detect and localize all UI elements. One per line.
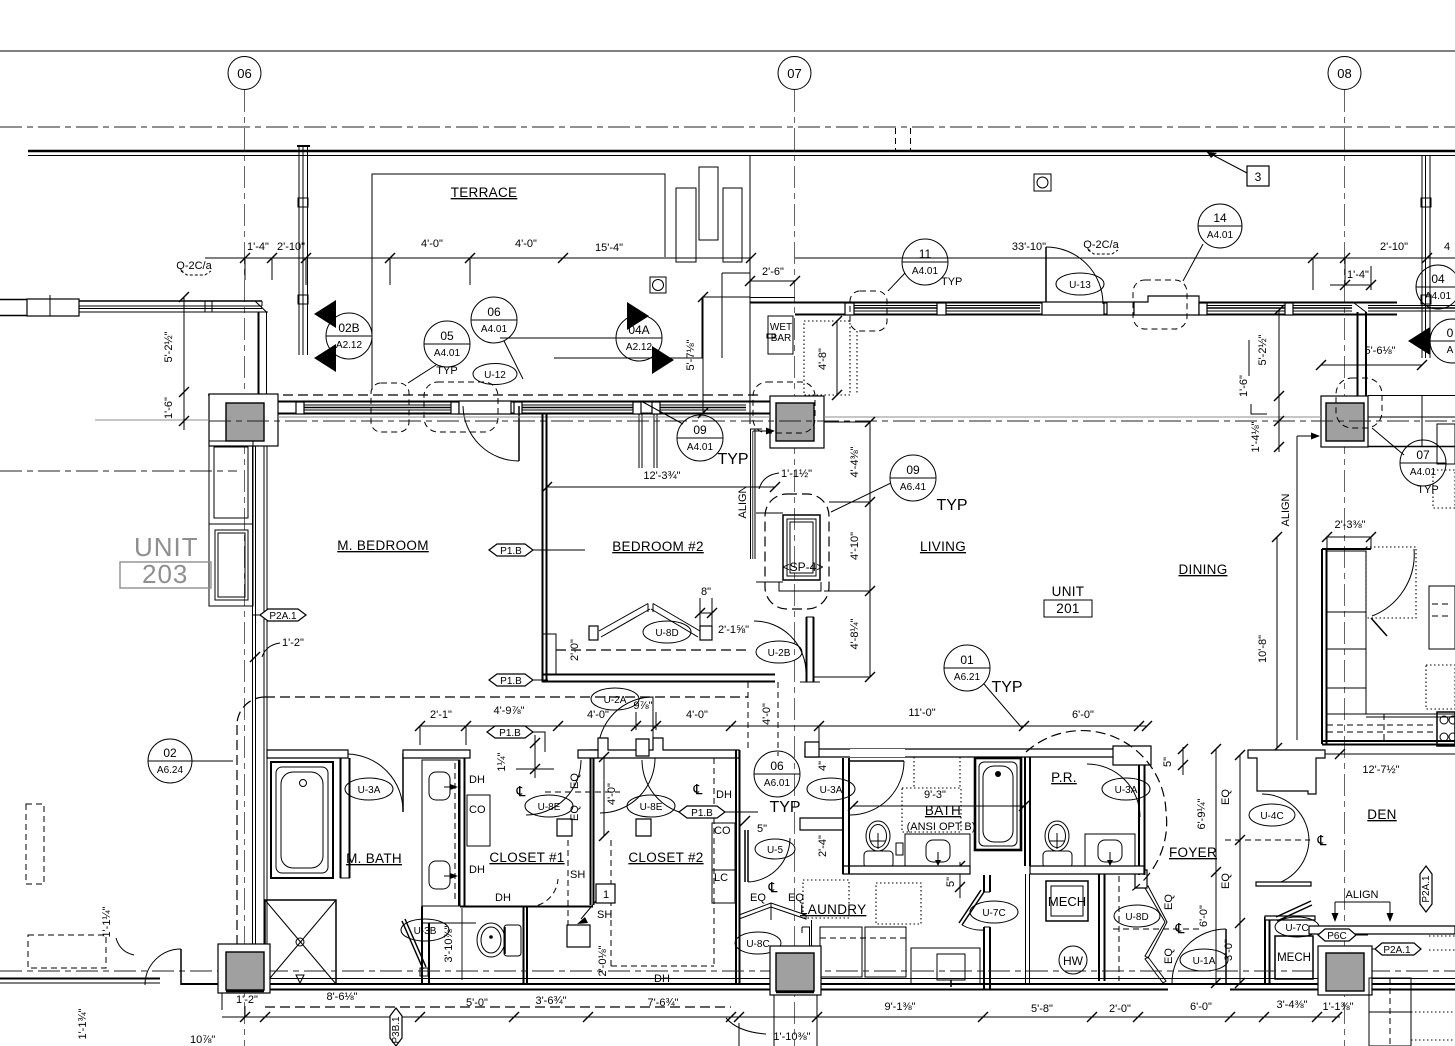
ALIGN bracket (den) <box>1332 889 1394 922</box>
svg-text:4'-8¼": 4'-8¼" <box>849 618 861 649</box>
bottom-left rotated texts (partially cut) <box>77 1008 218 1046</box>
Q-2C/a label right <box>1083 239 1119 254</box>
svg-text:6'-9¼": 6'-9¼" <box>1196 798 1208 829</box>
svg-text:5'-6⅛": 5'-6⅛" <box>1364 345 1395 357</box>
svg-text:U-8C: U-8C <box>746 939 769 950</box>
left unit bottom wall <box>0 949 222 1010</box>
svg-text:06: 06 <box>237 66 251 81</box>
dashed pill around col08 <box>1336 378 1382 428</box>
svg-text:U-1A: U-1A <box>1193 956 1216 967</box>
foyer/den south wall <box>1309 926 1455 934</box>
bedroom2 closet bifold U-8D <box>589 604 712 644</box>
svg-text:04: 04 <box>1431 272 1445 286</box>
closet left jog <box>542 634 556 674</box>
shower <box>265 900 336 984</box>
P1.B tag 2 <box>489 674 548 687</box>
svg-text:P2A.1: P2A.1 <box>269 611 297 622</box>
svg-text:02B: 02B <box>338 321 359 335</box>
callout 11/A4.01 TYP <box>888 239 962 291</box>
svg-text:CO: CO <box>469 804 486 816</box>
dashed pill around window joint 2 <box>424 382 498 432</box>
svg-text:9⅞": 9⅞" <box>633 700 652 712</box>
svg-text:33'-10": 33'-10" <box>1012 241 1046 253</box>
svg-text:U-5: U-5 <box>767 845 784 856</box>
big dashed arc around PR <box>1026 731 1167 892</box>
svg-text:DH: DH <box>495 892 511 904</box>
svg-text:P1.B: P1.B <box>500 676 522 687</box>
svg-text:1: 1 <box>603 889 609 901</box>
callout 14/A4.01 <box>1183 204 1242 281</box>
range <box>1437 712 1455 746</box>
svg-text:07: 07 <box>1416 448 1430 462</box>
svg-text:P.R.: P.R. <box>1051 770 1077 785</box>
mullion verticals below bedroom2 window <box>639 414 657 468</box>
svg-text:MECH: MECH <box>1048 894 1086 909</box>
bottom column 08 <box>1318 946 1372 995</box>
right edge counter bits <box>1437 424 1455 464</box>
svg-text:LAUNDRY: LAUNDRY <box>800 902 866 917</box>
laundry right wall stub <box>802 920 812 952</box>
svg-text:M. BATH: M. BATH <box>346 851 402 866</box>
corner turning down <box>258 312 260 394</box>
1 1/4" small dim <box>496 735 554 781</box>
8" dim <box>695 586 717 626</box>
linen U-5 door <box>740 816 795 882</box>
svg-text:1'-10⅜": 1'-10⅜" <box>773 1031 810 1043</box>
glazing to corner <box>1204 305 1352 307</box>
12'-3 3/4" dim <box>542 470 780 492</box>
svg-text:U-3A: U-3A <box>820 785 843 796</box>
P1.B tag 4 + leader <box>679 806 758 819</box>
svg-text:U-7C: U-7C <box>1285 923 1308 934</box>
closet1 dashes + SH labels <box>528 840 615 966</box>
top dimension row (left) <box>205 238 756 285</box>
UNIT 203 label (grey) <box>120 532 211 589</box>
svg-text:5'-2½": 5'-2½" <box>1257 334 1269 365</box>
centerline left wing y471 <box>0 470 237 472</box>
svg-text:U-12: U-12 <box>484 370 506 381</box>
M.bath north wall + door U-3A <box>267 750 466 812</box>
svg-text:4'-0": 4'-0" <box>515 238 537 250</box>
svg-text:(ANSI OPT B): (ANSI OPT B) <box>907 821 976 833</box>
PR door U-3A right <box>1087 764 1150 819</box>
long dashed line above window wall <box>208 394 762 396</box>
terrace louver rect 1 <box>676 188 696 262</box>
svg-text:1'-1¼": 1'-1¼" <box>101 906 113 937</box>
svg-text:TYP: TYP <box>991 679 1022 696</box>
main unit bottom wall (south) <box>181 979 1455 990</box>
laundry dotted upper cabinets <box>803 880 921 924</box>
6'-9 1/4" + EQ dims <box>1196 744 1327 988</box>
svg-text:6'-0": 6'-0" <box>1190 1001 1212 1013</box>
bathtub <box>271 762 333 878</box>
svg-text:09: 09 <box>693 423 707 437</box>
terrace mullion column x300 <box>297 146 310 355</box>
svg-text:EQ: EQ <box>1163 948 1175 964</box>
grid bubble 07 <box>778 57 811 90</box>
svg-text:4'-0": 4'-0" <box>587 709 609 721</box>
svg-text:DEN: DEN <box>1367 807 1396 822</box>
double sink vanity <box>422 760 460 906</box>
wall between tub and vanity <box>340 758 350 878</box>
svg-text:HW: HW <box>1063 954 1084 968</box>
svg-text:1'-2": 1'-2" <box>282 637 304 649</box>
svg-text:4'-0": 4'-0" <box>421 238 443 250</box>
CL + DH closet2 top <box>693 781 732 801</box>
wall stubs below bedroom2 (closet top) <box>590 738 739 758</box>
wall segments M.bedroom south <box>403 750 470 758</box>
svg-text:MECH: MECH <box>1277 952 1311 964</box>
svg-text:CLOSET #1: CLOSET #1 <box>489 850 564 865</box>
svg-text:5": 5" <box>1162 757 1174 767</box>
BATH labels <box>848 757 1029 833</box>
svg-text:06: 06 <box>770 759 784 773</box>
dashed pill around SP-4 <box>765 494 829 609</box>
svg-text:12'-7½": 12'-7½" <box>1362 764 1399 776</box>
svg-text:BEDROOM #2: BEDROOM #2 <box>612 539 704 554</box>
svg-text:203: 203 <box>142 559 188 589</box>
2'-0 1/8" rotated dim <box>597 930 616 993</box>
closet2 interior dashed <box>611 758 714 985</box>
vertical dim chain right of shaft <box>814 417 875 682</box>
1'-1 1/4" note <box>101 906 134 955</box>
SP-4 shaft <box>756 513 823 591</box>
svg-text:UNIT: UNIT <box>1052 584 1085 599</box>
svg-text:10'-8": 10'-8" <box>1257 635 1269 663</box>
svg-text:02: 02 <box>163 746 177 760</box>
section marker 02B/A2.12 <box>314 300 372 372</box>
svg-text:3'-10⅞": 3'-10⅞" <box>443 925 455 962</box>
WET BAR <box>767 316 793 354</box>
svg-text:1'-4": 1'-4" <box>247 241 269 253</box>
terrace louver rect 2 <box>699 167 718 240</box>
grid bubble 08 <box>1328 57 1361 90</box>
svg-text:5": 5" <box>945 877 957 887</box>
svg-text:11: 11 <box>919 247 932 261</box>
svg-text:A6.41: A6.41 <box>900 482 927 493</box>
ceiling box with circle (right) <box>1034 174 1051 191</box>
glazing segment 3 <box>658 404 746 406</box>
window band continues past corner to right edge <box>1368 305 1455 307</box>
U-12 terrace door opening <box>459 401 511 414</box>
svg-text:ALIGN: ALIGN <box>1280 493 1292 526</box>
svg-text:U-2B: U-2B <box>768 648 791 659</box>
wall piece + notched piece <box>1107 302 1134 315</box>
svg-text:TYP: TYP <box>769 799 800 816</box>
P2A.1 rotated tag <box>1420 866 1432 912</box>
callout 06/A4.01 <box>471 297 523 379</box>
svg-text:4'-8": 4'-8" <box>817 348 829 370</box>
wall bath/PR <box>1025 757 1030 984</box>
svg-text:U-7C: U-7C <box>982 908 1005 919</box>
1'-1 1/2" note <box>755 468 812 495</box>
dashed pill wall joint left of 08 <box>1133 280 1187 329</box>
svg-text:2'-10": 2'-10" <box>1380 241 1408 253</box>
svg-text:U-8E: U-8E <box>640 802 663 813</box>
5'-6 1/8" dim right of col08 <box>1321 364 1422 366</box>
P3B.1 rotated tag <box>390 1008 402 1046</box>
glazing segments <box>850 305 941 307</box>
svg-text:9'-1⅜": 9'-1⅜" <box>884 1001 915 1013</box>
svg-text:4'-4⅜": 4'-4⅜" <box>849 446 861 477</box>
bath door U-3A left <box>807 761 904 815</box>
terrace SE stepped boundary <box>749 155 751 424</box>
svg-text:1'-2": 1'-2" <box>236 994 258 1006</box>
svg-text:3'-4⅜": 3'-4⅜" <box>1276 999 1307 1011</box>
svg-text:0: 0 <box>1447 326 1454 340</box>
svg-text:3: 3 <box>1255 170 1262 184</box>
svg-text:15'-4": 15'-4" <box>595 242 623 254</box>
bottom column 06 <box>218 944 270 993</box>
svg-text:U-3A: U-3A <box>1115 785 1138 796</box>
bottom column 07 <box>770 946 821 1046</box>
svg-text:U-3A: U-3A <box>358 785 381 796</box>
closet dashed + 2'-0" <box>556 607 748 674</box>
svg-text:℄: ℄ <box>768 879 778 895</box>
svg-text:2'-1": 2'-1" <box>430 709 452 721</box>
svg-text:1'-1¾": 1'-1¾" <box>77 1008 89 1039</box>
Q-2C/a label left <box>176 260 212 275</box>
bedroom2 south wall <box>542 674 775 682</box>
svg-text:4'-0": 4'-0" <box>686 709 708 721</box>
door U-12 leaf+swing <box>463 406 519 461</box>
svg-text:3'-0": 3'-0" <box>1223 939 1235 961</box>
PR right wall <box>1139 765 1145 875</box>
bath tub <box>975 758 1021 850</box>
mech right room <box>1265 901 1319 984</box>
hall dashed lines + 4'-0" <box>748 682 778 756</box>
wall band right of col08 <box>1368 396 1455 447</box>
callout 09/A4.01 TYP (window wall) <box>641 401 749 468</box>
terrace louver rect 3 <box>723 188 742 262</box>
svg-text:2'-0": 2'-0" <box>1109 1003 1131 1015</box>
P1.B tag 3 <box>487 726 545 752</box>
closet1 EQ/EQ + CL + 4'-0" <box>516 752 621 841</box>
svg-text:09: 09 <box>906 463 920 477</box>
5" tick near PR <box>1162 744 1188 775</box>
svg-text:P6C: P6C <box>1327 931 1346 942</box>
ALIGN leader at col07 <box>737 428 775 560</box>
svg-text:5'-2½": 5'-2½" <box>163 331 175 362</box>
svg-text:2'-0": 2'-0" <box>569 639 581 661</box>
callout 07/A4.01 TYP <box>1372 428 1446 496</box>
dashed line below bottom dim texts <box>265 1006 731 1008</box>
grey floor edge line <box>278 416 770 418</box>
bifold U-8C <box>735 903 806 954</box>
U-13 door opening <box>1042 302 1104 315</box>
svg-text:1'-6": 1'-6" <box>163 397 175 419</box>
svg-text:<SP-4>: <SP-4> <box>783 560 824 574</box>
svg-text:P2A.1: P2A.1 <box>1383 945 1411 956</box>
svg-text:ALIGN: ALIGN <box>737 485 749 518</box>
U-12 oval tag <box>473 364 517 385</box>
svg-text:WET: WET <box>770 322 792 333</box>
glazing segment bedroom2 window <box>520 404 637 406</box>
callout 06/A6.01 TYP <box>754 751 801 816</box>
door U-13 leaf+swing <box>1046 247 1104 304</box>
glazing segment M.Bedroom window <box>302 404 455 406</box>
5'-2 1/2" + 1'-6" left vertical dims <box>163 292 189 430</box>
svg-text:FOYER: FOYER <box>1169 845 1217 860</box>
svg-text:2'-1⅝": 2'-1⅝" <box>718 624 749 636</box>
svg-text:4'-0": 4'-0" <box>606 783 618 805</box>
closet2 right wall <box>736 750 740 985</box>
property dash-dot line <box>0 126 1455 128</box>
svg-text:DINING: DINING <box>1178 562 1227 577</box>
building edge double line <box>28 150 1455 153</box>
NE corner down <box>1357 312 1359 396</box>
grid bubble 06 <box>228 57 261 90</box>
svg-text:1'-4⅛": 1'-4⅛" <box>1250 421 1262 452</box>
ALIGN leader col08 <box>1280 433 1320 741</box>
laundry EQ EQ CL <box>750 879 804 904</box>
10'-8" dining dim <box>1257 532 1282 753</box>
svg-text:Q-2C/a: Q-2C/a <box>1083 239 1119 251</box>
svg-text:8": 8" <box>701 586 711 598</box>
PR toilet <box>1043 821 1072 868</box>
svg-text:U-8D: U-8D <box>1125 912 1148 923</box>
svg-text:A4.01: A4.01 <box>481 324 508 335</box>
svg-text:2'-0⅛": 2'-0⅛" <box>597 945 609 976</box>
svg-text:08: 08 <box>1337 66 1351 81</box>
svg-text:U-4C: U-4C <box>1260 811 1283 822</box>
svg-text:EQ: EQ <box>1163 894 1175 910</box>
P2A.1 tag horizontal <box>1368 943 1421 956</box>
terrace divider next unit <box>1421 156 1431 358</box>
svg-text:6'-0": 6'-0" <box>1072 709 1094 721</box>
svg-text:05: 05 <box>440 329 454 343</box>
top border line <box>0 50 1455 52</box>
4'-8" dotted cabinet <box>804 316 857 400</box>
upper-left unit wall band y299-316 <box>0 295 268 394</box>
grid line 06 (vertical dash-dot) <box>244 90 246 1046</box>
svg-text:01: 01 <box>960 653 974 667</box>
svg-text:A: A <box>1447 345 1454 356</box>
svg-text:2'-4": 2'-4" <box>817 835 829 857</box>
hall wall piece y818-830 <box>800 818 843 830</box>
svg-text:2'-10": 2'-10" <box>277 241 305 253</box>
door U-3B diagonal <box>401 919 449 976</box>
bath south wall <box>843 758 1144 874</box>
P6C tag <box>1318 929 1368 942</box>
bath vanity <box>896 834 970 866</box>
svg-text:EQ: EQ <box>788 892 804 904</box>
soffit dashed line y697 <box>265 696 748 698</box>
svg-text:EQ: EQ <box>569 773 581 789</box>
svg-text:14: 14 <box>1213 211 1227 225</box>
svg-text:LC: LC <box>714 872 728 884</box>
svg-text:CO: CO <box>714 825 731 837</box>
svg-text:DH: DH <box>716 789 732 801</box>
svg-text:2'-6": 2'-6" <box>762 266 784 278</box>
svg-text:TYP: TYP <box>1417 484 1438 496</box>
svg-text:1'-6": 1'-6" <box>1238 375 1250 397</box>
svg-text:06: 06 <box>487 305 501 319</box>
svg-text:TYP: TYP <box>436 365 457 377</box>
door U-2B <box>754 621 806 673</box>
P1.B tag (wall) <box>489 544 585 557</box>
hall south wall pieces <box>590 875 990 990</box>
svg-text:M. BEDROOM: M. BEDROOM <box>337 538 429 553</box>
svg-text:TYP: TYP <box>717 451 748 468</box>
svg-text:5'-8": 5'-8" <box>1031 1003 1053 1015</box>
svg-text:2'-3⅜": 2'-3⅜" <box>1334 519 1365 531</box>
svg-text:1¼": 1¼" <box>496 752 508 771</box>
2'-6" dim <box>745 266 800 286</box>
svg-text:11'-0": 11'-0" <box>908 707 935 719</box>
toilet nook M.bath <box>422 906 521 957</box>
washer/dryer boxes <box>820 927 980 987</box>
dashed pill around window joint 1 <box>371 383 409 432</box>
5'-7 1/8" vertical dim <box>685 292 708 418</box>
svg-text:EQ: EQ <box>750 892 766 904</box>
svg-text:SH: SH <box>570 869 585 881</box>
svg-text:DH: DH <box>469 864 485 876</box>
wall band outline <box>265 401 780 403</box>
svg-text:07: 07 <box>787 66 801 81</box>
dotted lines right edge <box>1411 936 1455 1040</box>
svg-text:4": 4" <box>817 761 829 771</box>
svg-text:Q-2C/a: Q-2C/a <box>176 260 212 272</box>
dashed vertical + U-8D bifold (foyer closet) <box>1113 870 1200 983</box>
4" and 2'-4" rotated dims (right of closet2) <box>816 745 833 870</box>
svg-text:UNIT: UNIT <box>134 532 199 562</box>
svg-text:3'-6¾": 3'-6¾" <box>535 995 566 1007</box>
svg-text:8'-6⅛": 8'-6⅛" <box>326 991 357 1003</box>
dashed detail boundary (M.bath) <box>237 697 265 983</box>
centerline bottom <box>0 970 1455 972</box>
svg-text:4'-9⅞": 4'-9⅞" <box>493 705 524 717</box>
closet2 south area dims: 2-0 1/8 vertical line <box>615 930 617 995</box>
CO/LC cabinets <box>712 823 735 903</box>
svg-text:1'-1⅜": 1'-1⅜" <box>1322 1001 1353 1013</box>
svg-text:LIVING: LIVING <box>920 539 966 554</box>
svg-text:1'-4": 1'-4" <box>1347 269 1369 281</box>
svg-text:04A: 04A <box>628 323 649 337</box>
right bottom shelf boxes <box>1292 978 1411 1046</box>
callout 01/A6.21 TYP <box>944 645 1023 728</box>
svg-text:P1.B: P1.B <box>499 728 521 739</box>
svg-text:201: 201 <box>1056 601 1079 616</box>
closet2 left wall <box>591 758 594 905</box>
svg-text:U-8D: U-8D <box>655 628 678 639</box>
walls around m.bath bottom <box>422 907 527 985</box>
svg-text:5": 5" <box>757 823 767 835</box>
wall right of vanity <box>422 758 593 907</box>
ceiling box with circle (left) <box>650 277 666 293</box>
dashed pill wall joint right of 07 <box>850 291 887 331</box>
svg-text:5'-7⅛": 5'-7⅛" <box>685 339 697 370</box>
DEN door arcs at left edge of den (from foyer hall) <box>1247 793 1249 795</box>
svg-text:A2.12: A2.12 <box>336 340 363 351</box>
svg-text:TYP: TYP <box>936 497 967 514</box>
svg-text:6'-0": 6'-0" <box>1198 905 1210 927</box>
closet1 top wall pieces + U-8E double doors <box>466 739 697 836</box>
svg-text:P1.B: P1.B <box>691 808 713 819</box>
terrace outline <box>372 174 665 390</box>
svg-text:TYP: TYP <box>941 276 962 288</box>
svg-text:EQ: EQ <box>569 805 581 821</box>
dashed pill around col07 joint <box>753 382 815 433</box>
keynote 3 box with leader <box>1207 152 1269 186</box>
svg-text:10⅞": 10⅞" <box>190 1034 215 1046</box>
svg-text:9'-3": 9'-3" <box>924 789 946 801</box>
svg-text:BATH: BATH <box>925 803 961 818</box>
svg-text:A6.01: A6.01 <box>764 778 791 789</box>
svg-text:TERRACE: TERRACE <box>451 185 518 200</box>
5" dim near hall <box>945 861 965 898</box>
svg-text:A6.21: A6.21 <box>954 672 981 683</box>
